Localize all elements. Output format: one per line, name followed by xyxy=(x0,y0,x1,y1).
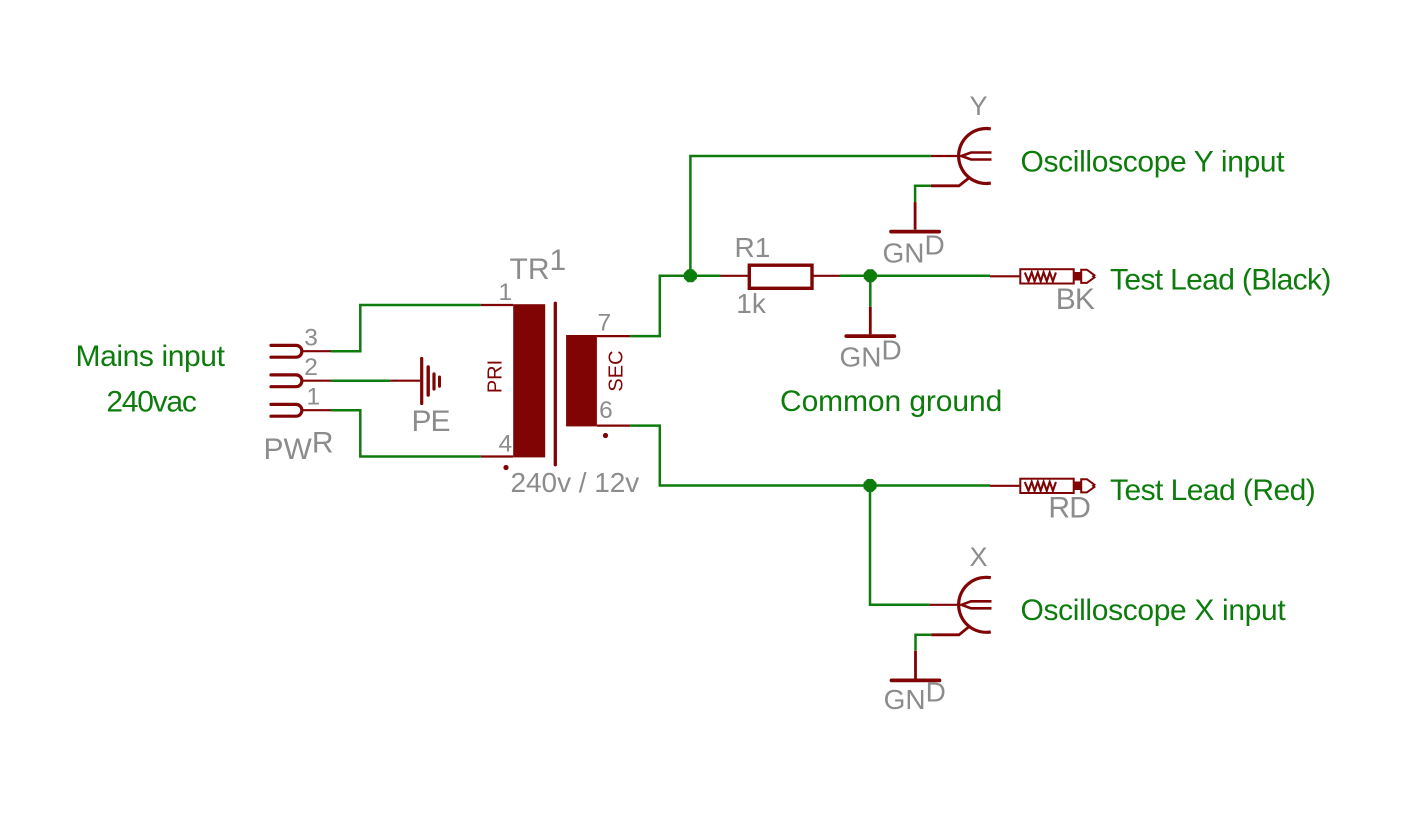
test lead plug BK xyxy=(990,269,1094,283)
junction J2 xyxy=(864,269,877,282)
svg-text:BK: BK xyxy=(1056,283,1095,316)
wire junction J3 down to X connector xyxy=(870,486,930,605)
svg-text:4: 4 xyxy=(499,430,513,457)
svg-text:Common ground: Common ground xyxy=(780,385,1002,418)
svg-text:PRI: PRI xyxy=(485,360,507,393)
transformer TR1 secondary pin 7 xyxy=(597,335,630,337)
connector PWR pin 2 xyxy=(271,375,331,387)
junction J3 xyxy=(864,479,877,492)
svg-text:PE: PE xyxy=(412,405,450,438)
connector PWR pin 3 xyxy=(271,345,331,357)
svg-text:Mains input: Mains input xyxy=(75,340,225,373)
resistor R1 xyxy=(721,265,840,288)
connector PWR pin 1 xyxy=(271,404,331,416)
svg-text:7: 7 xyxy=(598,310,612,337)
wire TR1 pin6 to junction J3 xyxy=(630,426,870,486)
svg-text:Test Lead (Red): Test Lead (Red) xyxy=(1110,474,1315,507)
ground GND (middle) xyxy=(846,307,894,336)
BNC connector X center pin xyxy=(930,601,992,608)
ground GND (Y) xyxy=(891,202,939,232)
svg-text:240v / 12v: 240v / 12v xyxy=(511,467,640,498)
svg-text:Oscilloscope Y input: Oscilloscope Y input xyxy=(1021,145,1286,178)
BNC connector X ground tab xyxy=(931,626,969,635)
svg-text:Oscilloscope X input: Oscilloscope X input xyxy=(1021,594,1287,627)
transformer TR1 primary pin 4 xyxy=(481,455,513,457)
transformer TR1 secondary pin 6 xyxy=(597,425,630,427)
svg-text:1k: 1k xyxy=(736,288,767,319)
wire junction J1 up to Y connector xyxy=(690,156,931,276)
transformer TR1 primary pin 1 xyxy=(481,304,513,306)
svg-text:RD: RD xyxy=(1048,492,1090,525)
test lead plug RD xyxy=(990,479,1094,493)
wire net pin1 to TR1 pin4 xyxy=(331,410,481,456)
wire junction J1 to R1 xyxy=(690,275,720,278)
svg-text:1: 1 xyxy=(307,384,321,411)
wire TR1 pin7 to junction J1 xyxy=(630,276,690,336)
polarity dot primary xyxy=(503,465,508,470)
wire X tab to GND xyxy=(916,635,932,651)
svg-text:6: 6 xyxy=(599,397,613,424)
junction J1 xyxy=(684,269,697,282)
wire net pin2 to PE xyxy=(331,379,390,382)
BNC connector Y center pin xyxy=(931,153,992,160)
transformer TR1 primary winding xyxy=(513,304,545,457)
svg-text:3: 3 xyxy=(304,325,318,352)
svg-text:2: 2 xyxy=(304,354,318,381)
svg-text:SEC: SEC xyxy=(605,350,627,391)
wire junction J3 to RD plug xyxy=(870,484,990,487)
transformer TR1 core xyxy=(554,303,557,465)
wire junction J2 down to GND xyxy=(869,276,872,307)
BNC connector Y arc xyxy=(959,129,991,184)
wire R1 to junction J2 xyxy=(840,275,871,278)
BNC connector Y ground tab xyxy=(931,178,970,186)
svg-text:Y: Y xyxy=(970,91,988,121)
svg-text:R1: R1 xyxy=(735,232,771,263)
svg-text:Test Lead (Black): Test Lead (Black) xyxy=(1110,263,1331,296)
wire Y tab to GND xyxy=(915,186,931,202)
svg-text:240vac: 240vac xyxy=(106,385,196,418)
transformer TR1 secondary winding xyxy=(566,335,597,426)
polarity dot secondary xyxy=(603,433,608,438)
ground GND (X) xyxy=(892,651,940,681)
wire junction J2 to BK plug xyxy=(870,275,990,278)
BNC connector X arc xyxy=(959,577,991,632)
svg-text:X: X xyxy=(970,542,988,572)
earth symbol PE xyxy=(390,359,439,404)
wire net pin3 to TR1 pin1 xyxy=(331,305,481,351)
